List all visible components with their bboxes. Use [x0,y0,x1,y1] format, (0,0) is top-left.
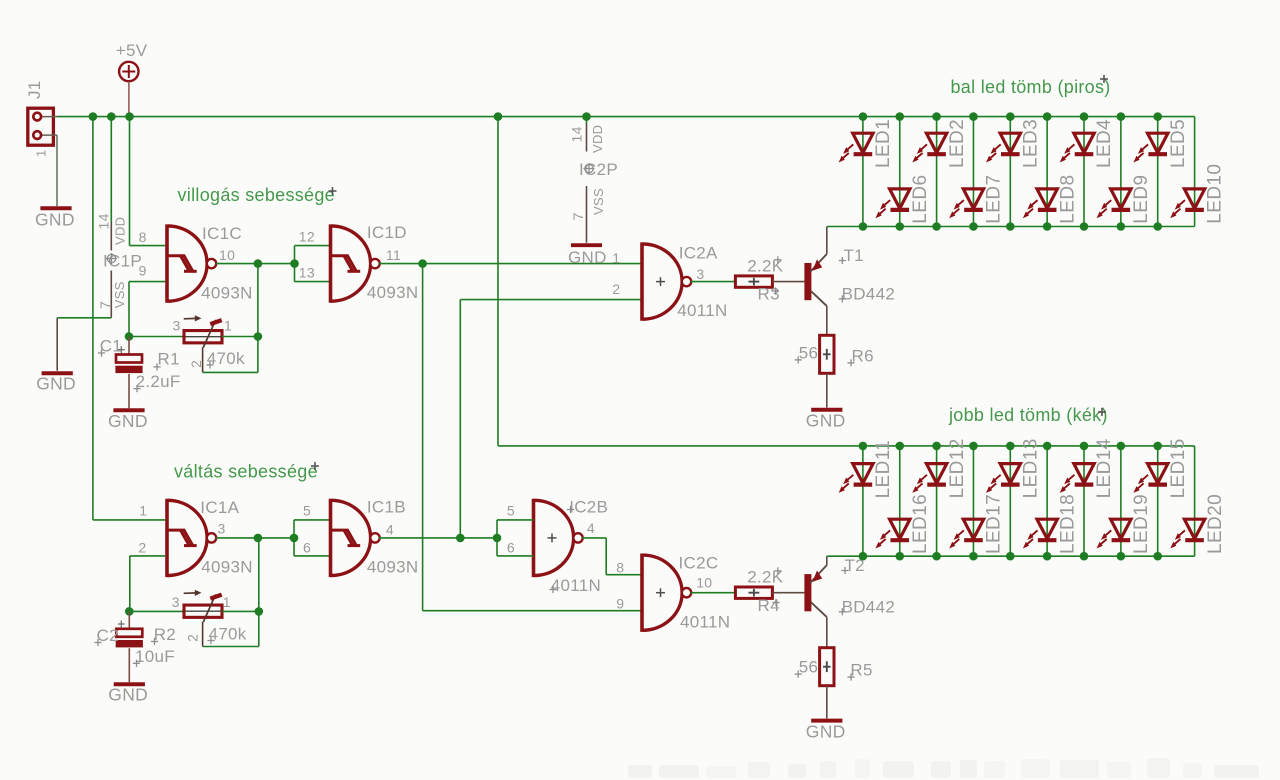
svg-text:IC1A: IC1A [200,498,239,517]
label R3 [758,285,780,304]
label T2 [841,556,865,575]
wire IC2A out to R3 [691,281,736,283]
wire IC1B out up to IC2A pin2 [460,300,642,538]
supply +5V symbol [119,62,138,81]
wire RC1 node [129,336,184,338]
pin 3 label (R2) [172,594,180,610]
wire IC1C output [216,263,295,265]
pin 3 label (IC1A) [218,521,226,537]
pin 6 label (IC1B) [303,539,311,555]
junction array1 bottom [859,222,868,231]
svg-text:1: 1 [223,594,231,610]
resistor R4 [735,587,773,598]
value BD442 (T1) [839,285,895,304]
wire R2 right to feedback [222,610,259,612]
LED LED5 [1133,119,1189,168]
svg-text:VSS: VSS [591,188,606,215]
svg-text:VSS: VSS [112,281,127,308]
wire LED array2 top rail [498,445,1195,447]
wire R1 wiper loop [203,337,258,373]
wire rail to IC1P VDD [110,117,112,222]
svg-text:GND: GND [36,373,76,393]
pin 3 label [696,266,704,282]
wire rail to IC2P VDD [586,117,588,124]
svg-text:10uF: 10uF [135,647,175,666]
svg-text:GND: GND [806,410,846,430]
label bal led tomb (piros) [951,75,1111,97]
junction array1 top [1043,112,1052,121]
value BD442 (T2) [839,597,895,616]
svg-text:4: 4 [587,520,595,536]
ground (IC1P) [36,373,76,393]
junction RC2 left [125,607,134,616]
junction array1 bottom [895,222,904,231]
junction RC1 left [125,332,134,341]
value 2.2K (R4) [747,567,784,586]
junction on VDD rail [125,112,134,121]
pin 2 label (IC2A) [612,281,620,297]
wire IC1A output [216,537,294,539]
svg-text:IC2A: IC2A [679,244,718,263]
svg-text:LED20: LED20 [1205,494,1226,554]
svg-text:3: 3 [218,521,226,537]
wire RC2 node [129,610,184,612]
junction array2 top [895,442,904,451]
pin 8 label [139,229,147,245]
svg-text:2: 2 [185,634,201,642]
wire IC1D out down to IC2C pin9 [423,264,642,611]
value 4093N (IC1B) [367,557,419,576]
value 10uF (C2) [133,647,175,667]
junction IC1B out / IC2A [456,534,465,543]
wire IC2C out to R4 [691,592,736,594]
pin 2 label (R2) [185,634,201,642]
svg-text:villogás sebessége: villogás sebessége [178,185,336,205]
svg-text:LED6: LED6 [910,175,931,224]
junction array2 bottom [859,552,868,561]
wire LED column 6 (array1) [1046,117,1048,227]
nand gate IC2B [534,499,583,577]
resistor R5 [820,648,834,686]
svg-text:5: 5 [303,502,311,518]
LED LED13 [986,438,1042,498]
svg-text:LED9: LED9 [1131,175,1152,224]
wire LED array2 right edge [1194,446,1196,556]
pin 1 label (IC1A) [139,503,147,519]
label C1 [98,337,122,357]
svg-text:9: 9 [616,596,624,612]
wire LED column 1 (array2) [862,446,864,556]
label C2 [94,626,118,646]
svg-text:LED1: LED1 [873,119,894,168]
faint watermark band [628,758,1259,778]
nand gate IC1D [331,224,380,302]
pin 9 label (IC2C) [616,596,624,612]
wire T2 emitter to LED rail [826,556,828,565]
label villogas sebessege [178,185,337,205]
pin 3 label (R1) [173,318,181,334]
ground (R6) [806,410,846,431]
wire LED column 7 (array2) [1083,446,1085,556]
LED LED7 [949,175,1005,224]
junction array1 bottom [1080,222,1089,231]
value 4093N (IC1A) [201,557,253,576]
wire LED column 7 (array1) [1083,117,1085,227]
LED LED1 [839,119,895,168]
pin 4 label (IC1B) [386,521,394,537]
wire R2 wiper loop [203,611,259,646]
pin 10 label (IC2C) [696,575,712,591]
junction RC1 right [254,332,263,341]
wire LED array2 bottom rail [827,555,1195,557]
wire bracket IC2B [497,520,534,556]
svg-text:BD442: BD442 [842,597,895,616]
svg-text:IC1B: IC1B [367,498,406,517]
junction array2 bottom [1043,552,1052,561]
wire T1 emitter to LED rail [826,227,828,254]
svg-text:LED15: LED15 [1168,438,1189,498]
svg-text:LED17: LED17 [984,494,1005,554]
ground (C2) [108,684,148,704]
junction IC2B input bracket [493,534,502,543]
svg-text:LED12: LED12 [947,438,968,498]
svg-text:BD442: BD442 [842,285,895,304]
value 4093N (IC1D) [367,283,419,302]
svg-text:3: 3 [173,318,181,334]
svg-text:IC2B: IC2B [569,497,608,516]
svg-text:1: 1 [34,149,49,157]
svg-text:10: 10 [696,575,712,591]
polarity + (C1) [118,346,125,353]
wire LED column 8 (array2) [1120,446,1122,556]
svg-text:7: 7 [570,212,586,220]
capacitor C2 [116,629,143,648]
nand gate IC1C [167,224,216,302]
trimmer R1 [182,315,224,347]
svg-text:IC1D: IC1D [367,223,407,242]
svg-text:2: 2 [612,281,620,297]
value 470k (R2) [207,625,246,645]
label J1 [25,80,44,99]
pin 1 label (R2) [223,594,231,610]
label R5 [847,661,872,681]
LED LED8 [1023,175,1079,224]
svg-text:LED7: LED7 [984,175,1005,224]
wire R4 to T2 base [772,592,804,594]
LED LED14 [1060,438,1116,498]
wire LED column 3 (array1) [936,117,938,227]
label IC2P [579,160,618,179]
svg-text:LED3: LED3 [1021,119,1042,168]
junction IC1C out / R1 [254,259,263,268]
value 2.2K (R3) [747,256,784,275]
svg-text:6: 6 [303,539,311,555]
svg-text:LED14: LED14 [1094,438,1115,498]
junction array2 top [932,442,941,451]
pin 13 label [299,265,315,281]
LED LED20 [1170,494,1226,554]
junction array1 top [1117,112,1126,121]
wire rail to IC1A pin1 [93,117,165,520]
junction array2 bottom [1153,552,1162,561]
LED LED12 [912,438,968,498]
svg-text:2.2uF: 2.2uF [136,372,181,391]
ground (J1) [35,208,75,229]
wire LED column 2 (array1) [899,117,901,227]
label IC1A [200,498,239,517]
trimmer R2 [182,590,224,622]
wire LED array1 bottom rail [827,226,1195,228]
svg-text:13: 13 [299,265,315,281]
junction array1 bottom [1043,222,1052,231]
wire LED array1 right edge [1194,117,1196,227]
svg-text:jobb led tömb (kék): jobb led tömb (kék) [948,405,1108,425]
value 4011N (IC2B) [549,576,601,595]
wire LED column 5 (array1) [1009,117,1011,227]
value 470k (R1) [206,349,245,368]
label T1 [839,246,864,265]
LED LED11 [839,440,895,499]
svg-text:4011N: 4011N [551,576,601,595]
svg-text:6: 6 [507,539,515,555]
svg-text:4011N: 4011N [680,613,730,632]
svg-text:VDD: VDD [113,217,128,245]
svg-text:+5V: +5V [116,41,148,60]
wire C2 top [128,611,130,628]
svg-text:10: 10 [219,247,235,263]
resistor R6 [820,335,834,373]
junction array2 bottom [1117,552,1126,561]
wire IC1D output to IC2A pin1 [379,263,642,265]
polarity + (C2) [118,621,125,628]
svg-text:LED11: LED11 [873,440,894,499]
nand gate IC1B [331,499,380,577]
svg-text:1: 1 [612,250,620,266]
label R1 [153,350,179,371]
junction array2 top [969,442,978,451]
LED LED19 [1097,494,1153,554]
wire LED column 8 (array1) [1120,117,1122,227]
label IC1B [367,498,406,517]
svg-text:8: 8 [139,229,147,245]
svg-text:4011N: 4011N [677,301,727,320]
value 2.2uF (C1) [133,372,180,392]
junction array1 top [1080,112,1089,121]
wire LED column 9 (array1) [1157,117,1159,227]
svg-text:12: 12 [299,229,315,245]
value 4011N (IC2A) [677,301,727,320]
label valtas sebessege [174,461,319,481]
wire rail to IC1C pin8 [130,117,166,246]
junction array2 bottom [895,552,904,561]
connector J1 [28,108,57,145]
junction array1 top [1153,112,1162,121]
ground (IC2P) [568,245,607,267]
resistor R3 [735,276,773,287]
LED LED18 [1023,494,1079,554]
wire IC1C pin9 to RC node [129,282,165,337]
LED LED16 [875,494,931,554]
wire VDD rail [57,116,1195,118]
pin 11 label [386,247,401,263]
value 56 (R6) [795,343,819,363]
wire R6 to ground [826,373,828,407]
wire LED column 2 (array2) [899,446,901,556]
svg-text:LED4: LED4 [1094,119,1115,168]
junction array2 bottom [932,552,941,561]
value 4093N (IC1C) [201,283,253,302]
nand gate IC1A [167,499,216,577]
wire T1 collector to R6 [826,306,828,335]
nand gate IC2A [642,242,691,320]
svg-text:J1: J1 [25,80,44,99]
junction on VDD rail [582,112,591,121]
junction IC1D input bracket [290,259,299,268]
svg-text:1: 1 [224,318,232,334]
wire LED column 4 (array1) [972,117,974,227]
junction RC2 right [254,607,263,616]
wire R3 to T1 base [772,281,804,283]
svg-text:2: 2 [188,360,204,368]
svg-text:LED8: LED8 [1057,175,1078,224]
svg-text:4093N: 4093N [201,557,253,576]
svg-text:T1: T1 [844,246,864,265]
pin 2 label (IC1A) [138,540,146,556]
junction array1 bottom [1006,222,1015,231]
junction array2 top [1117,442,1126,451]
label R4 [758,596,780,615]
svg-text:LED16: LED16 [910,494,931,554]
wire LED column 6 (array2) [1046,446,1048,556]
pin 2 label (R1) [188,360,204,368]
junction array1 top [895,112,904,121]
label IC2C [679,554,719,573]
junction array2 bottom [969,552,978,561]
wire IC2B out to IC2C pin8 [582,538,642,575]
svg-text:9: 9 [139,262,147,278]
svg-text:3: 3 [696,266,704,282]
pin 10 label [219,247,235,263]
wire R1 right to feedback [222,336,258,338]
svg-text:GND: GND [806,721,846,741]
junction array1 top [859,112,868,121]
svg-text:14: 14 [568,126,584,142]
svg-text:bal led tömb (piros): bal led tömb (piros) [951,77,1111,97]
wire R5 to ground [826,686,828,719]
svg-text:14: 14 [96,213,112,229]
junction IC1D out [418,259,427,268]
wire IC1D input bracket [295,246,331,282]
svg-text:4093N: 4093N [367,283,419,302]
wire IC1A pin2 to RC node [130,556,165,612]
capacitor C1 [115,355,142,374]
LED LED9 [1097,175,1153,224]
wire IC1B output [379,537,497,539]
svg-text:8: 8 [616,559,624,575]
junction array2 bottom [1006,552,1015,561]
svg-text:7: 7 [97,301,113,309]
svg-text:4: 4 [386,521,394,537]
pin 4 label (IC2B) [587,520,595,536]
svg-text:1: 1 [139,503,147,519]
svg-text:VDD: VDD [590,125,605,153]
svg-text:GND: GND [35,210,75,230]
value 56 (R5) [795,658,819,678]
svg-text:4093N: 4093N [367,557,419,576]
svg-text:LED2: LED2 [947,119,968,168]
label IC1P [103,252,142,271]
wire LED column 1 (array1) [862,117,864,227]
junction array1 bottom [1117,222,1126,231]
ground (R5) [806,721,846,742]
wire IC1B input bracket [294,520,331,556]
junction array1 top [969,112,978,121]
LED LED4 [1060,119,1116,168]
wire IC1P VSS to ground [57,318,111,371]
label IC2A [679,244,718,263]
LED LED17 [949,494,1005,554]
junction on VDD rail [89,112,98,121]
junction IC1B input bracket [290,534,299,543]
svg-text:3: 3 [172,594,180,610]
pin 5 label (IC1B) [303,502,311,518]
pin 5 label (IC2B) [507,502,515,518]
transistor T2 [804,565,826,617]
pin 1 label (J1) [34,149,49,157]
svg-text:R6: R6 [852,347,874,366]
svg-text:GND: GND [108,684,148,704]
svg-text:4093N: 4093N [201,283,253,302]
value 4011N (IC2C) [680,613,730,632]
junction array1 top [932,112,941,121]
junction array2 bottom [1080,552,1089,561]
wire feedback vertical (R1) [257,264,259,337]
pin 12 label [299,229,315,245]
junction array2 top [1006,442,1015,451]
svg-text:R1: R1 [158,350,180,369]
svg-text:LED10: LED10 [1205,164,1226,224]
svg-text:LED13: LED13 [1021,438,1042,498]
junction array1 bottom [932,222,941,231]
wire J1 pin2 to ground [56,135,58,206]
wire LED column 5 (array2) [1009,446,1011,556]
svg-text:5: 5 [507,502,515,518]
power pins IC2P [568,124,606,243]
svg-text:2: 2 [138,540,146,556]
junction on VDD rail [107,112,116,121]
wire C2 to ground [128,648,130,682]
junction on VDD rail [494,112,503,121]
wire T2 collector to R5 [826,617,828,648]
svg-text:R3: R3 [758,285,780,304]
LED LED10 [1170,164,1226,224]
wire rail to array2 [497,117,499,446]
pin 1 label (R1) [224,318,232,334]
ground (C1) [108,410,148,431]
junction array1 top [1006,112,1015,121]
svg-text:LED18: LED18 [1057,494,1078,554]
svg-text:IC1C: IC1C [202,224,242,243]
svg-text:LED19: LED19 [1131,494,1152,554]
label IC1D [367,223,407,242]
LED LED15 [1133,438,1189,498]
label +5V [116,41,148,60]
svg-text:GND: GND [108,411,148,431]
LED LED2 [912,119,968,168]
nand gate IC2C [642,554,691,632]
wire LED column 3 (array2) [936,446,938,556]
junction array1 bottom [1153,222,1162,231]
